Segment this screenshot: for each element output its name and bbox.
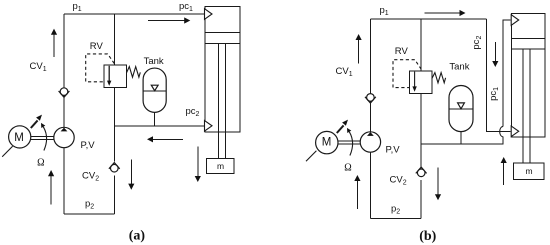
svg-text:P,V: P,V [81,140,96,151]
RV spring [127,67,141,78]
motor mount diagonal (b) [306,151,316,162]
node p2 label [85,199,94,211]
RV internal arrow (b) [412,72,416,92]
wire accumulator stem [154,112,156,126]
svg-text:P,V: P,V [386,145,401,156]
RV spring (b) [432,73,446,83]
flow arrow down between pc lines (b) [492,42,498,67]
svg-text:Tank: Tank [449,62,469,73]
wire bottom [64,213,114,215]
svg-text:(b): (b) [419,229,436,244]
flow arrow up bottom left (b) [354,175,360,209]
svg-text:pc1: pc1 [179,1,193,13]
pump P,V (b) [360,132,380,152]
rotation arc [41,123,47,151]
node Tank label [144,56,164,67]
flow arrow down (x131) [128,160,134,190]
caption (b) [419,229,436,244]
node Tank label (b) [449,62,469,73]
node pc1 label [179,1,193,13]
wire RV vertical upper (b) [420,19,422,71]
node CV1 label (b) [336,66,353,78]
wire RV vertical lower (b) [420,93,422,167]
port arrow pc1 (open) [205,9,213,20]
RV pilot dashed line (b) [393,60,421,88]
wire bottom (b) [370,218,421,220]
svg-text:Ω: Ω [344,163,351,174]
relief valve RV box [104,65,127,87]
svg-text:Tank: Tank [144,56,164,67]
svg-text:CV2: CV2 [82,171,99,183]
cylinder (b) [512,13,546,163]
node p1 label [73,1,82,13]
port arrow pc2 bottom (open) (b) [511,126,519,137]
svg-text:M: M [322,136,332,148]
relief valve RV box (b) [409,71,432,93]
node CV1 label [30,61,47,73]
svg-text:RV: RV [90,41,104,52]
port arrow pc2 (open) [205,121,213,132]
svg-text:p2: p2 [391,204,400,216]
label P,V [81,140,96,151]
mass m [207,159,235,174]
wire RV vertical lower [113,88,115,162]
svg-text:m: m [526,166,533,176]
node Omega label (b) [344,163,351,174]
RV internal arrow [107,66,111,86]
motor M [9,126,31,148]
flow arrow up (near CV1) [51,29,57,57]
svg-text:CV1: CV1 [336,66,353,78]
accumulator Tank [143,68,166,112]
label P,V (b) [386,145,401,156]
flow arrow right top (b) [425,10,466,16]
wire top p1 line (b) [370,18,486,20]
cylinder (a) [205,7,240,159]
node p1 label (b) [380,5,389,17]
check valve CV2 (b) [416,167,427,177]
node CV2 label [82,171,99,183]
wire left vertical (b) [369,19,371,219]
svg-text:pc1: pc1 [488,87,500,101]
variable displacement bold arrow (b) [337,120,348,133]
svg-text:pc2: pc2 [186,106,200,118]
motor mount diagonal [2,146,12,157]
node CV2 label (b) [390,175,407,187]
motor M (b) [316,131,338,153]
flow arrow up near CV1 (b) [356,34,362,64]
shaft (b) [338,141,361,144]
flow arrow up near mass (b) [501,157,507,185]
wire top p1 line [64,13,204,15]
shaft [30,136,54,139]
port arrow pc1 top (open) (b) [511,15,519,26]
svg-text:CV1: CV1 [30,61,47,73]
variable displacement bold arrow [31,115,42,128]
flow arrow down (x198) [195,147,201,183]
flow arrow up (bottom left) [48,170,54,205]
wire pc2 net (b) [487,19,511,131]
node pc1 label rotated (b) [488,87,500,101]
node Omega label [37,157,44,168]
svg-text:M: M [14,132,24,144]
flow arrow down right of CV2 (b) [435,167,441,200]
wire left vertical [63,14,65,214]
svg-text:RV: RV [395,46,409,57]
svg-text:p2: p2 [85,199,94,211]
svg-text:(a): (a) [129,229,146,244]
flow arrow right (top) [148,17,190,23]
accumulator Tank (b) [449,86,473,132]
wire RV vertical upper [113,14,115,65]
wire accumulator stem (b) [460,132,462,144]
svg-text:pc2: pc2 [471,36,483,50]
rotation arc (b) [347,128,353,156]
wire below CV2 [113,176,115,215]
wire pc1 net with hop (b) [503,20,511,127]
svg-text:m: m [217,161,224,171]
check valve CV1 (b) [365,94,376,104]
svg-text:Ω: Ω [37,157,44,168]
node RV label [90,41,104,52]
svg-text:p1: p1 [73,1,82,13]
check valve CV2 [109,163,120,173]
caption (a) [129,229,146,244]
RV pilot dashed line [86,54,115,82]
node RV label (b) [395,46,409,57]
pump P,V [54,127,74,147]
mass m (b) [514,163,545,179]
node pc2 label rotated (b) [471,36,483,50]
node p2 label (b) [391,204,400,216]
wire mid pc2 line [114,125,204,127]
check valve CV1 [59,88,70,98]
svg-text:CV2: CV2 [390,175,407,187]
node pc2 label [186,106,200,118]
svg-text:p1: p1 [380,5,389,17]
flow arrow left (mid) [147,136,183,142]
wire below CV2 (b) [420,180,422,218]
